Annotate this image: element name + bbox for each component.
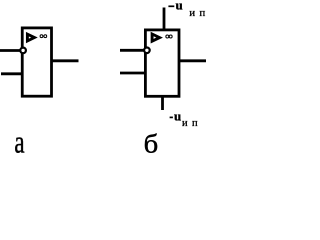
wire U2 output [180, 59, 207, 62]
op-amp U1 infinity gain mark [40, 35, 47, 38]
svg-text:б: б [144, 130, 159, 159]
op-amp U2 infinity gain mark [166, 35, 172, 38]
wire U1 output [52, 59, 79, 62]
op-amp U2 body [145, 30, 179, 96]
label -u supply (bottom) minus sign [170, 116, 173, 118]
svg-text:и: и [189, 7, 195, 19]
svg-text:и: и [182, 118, 188, 129]
wire U1 non-inverting input [1, 72, 22, 75]
wire U2 negative supply stub [161, 96, 164, 110]
op-amp U2 amplifier triangle [152, 34, 160, 41]
svg-text:п: п [199, 7, 205, 19]
U1 inverting input bubble [20, 48, 26, 54]
svg-text:а: а [14, 125, 24, 161]
svg-text:u: u [176, 0, 183, 12]
label -u supply (top) minus sign [168, 5, 174, 7]
wire U2 non-inverting input [120, 72, 145, 75]
svg-text:u: u [174, 108, 181, 123]
svg-text:п: п [192, 118, 198, 129]
wire U2 inverting input [120, 49, 144, 52]
wire U1 inverting input [0, 49, 20, 52]
op-amp U1 body [22, 28, 51, 96]
op-amp U1 amplifier triangle [27, 34, 34, 41]
U2 inverting input bubble [144, 48, 150, 54]
wire U2 positive supply stub [163, 8, 166, 31]
